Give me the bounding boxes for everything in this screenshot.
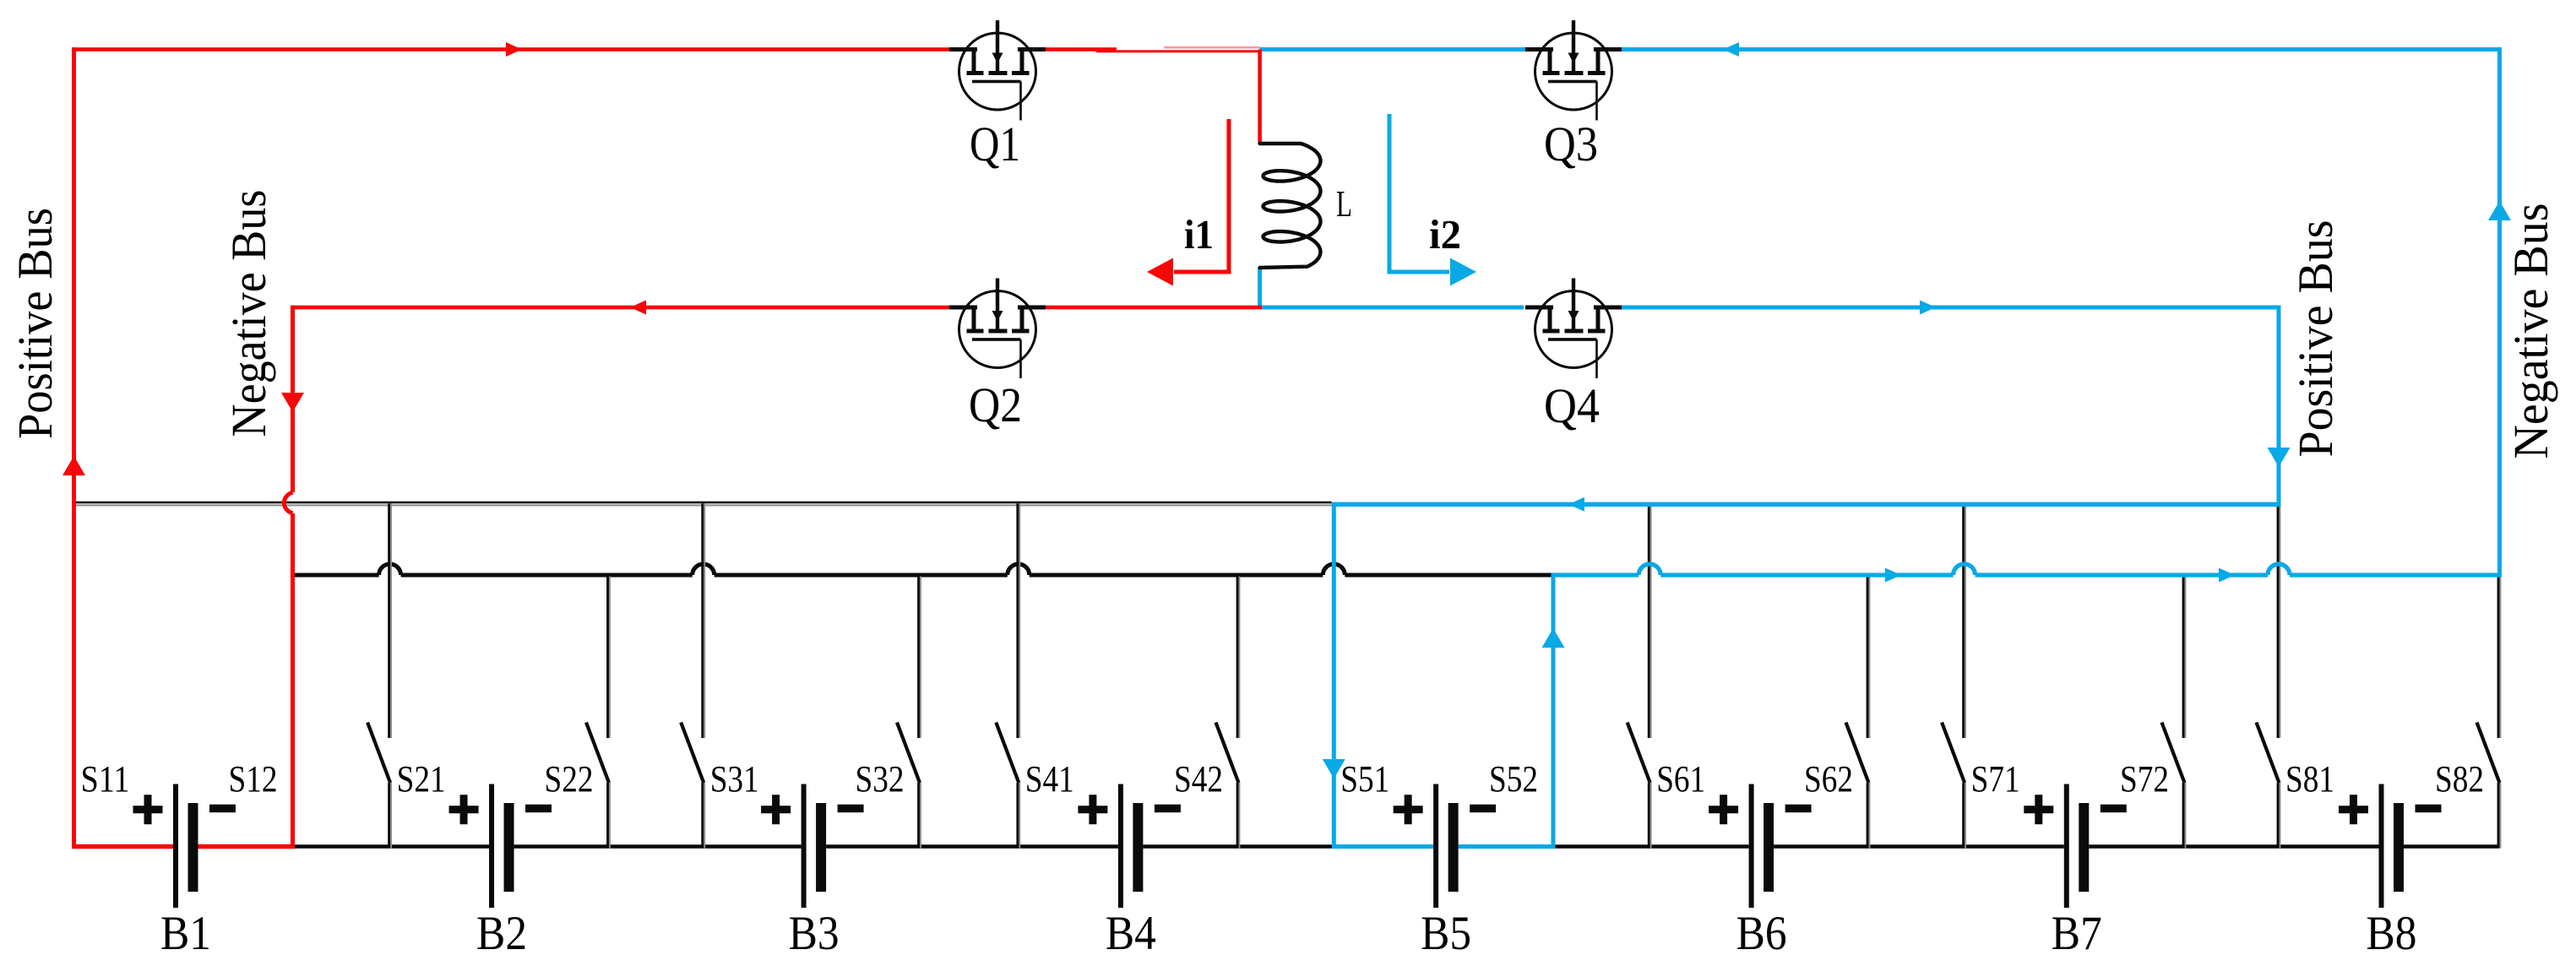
wire: right Negative Bus vertical (blue)	[2497, 47, 2502, 575]
switch S32 (open)	[897, 577, 921, 849]
svg-text:S82: S82	[2435, 758, 2484, 800]
label B7	[2052, 907, 2102, 960]
label S31	[710, 758, 759, 800]
battery B6	[1709, 784, 1812, 909]
arrow: down arrow on right Positive Bus vertical	[2268, 448, 2291, 467]
svg-text:Negative Bus: Negative Bus	[2503, 204, 2558, 459]
svg-text:S22: S22	[545, 758, 594, 800]
svg-text:B5: B5	[1421, 907, 1471, 960]
svg-text:S21: S21	[397, 758, 446, 800]
label B1	[160, 907, 211, 960]
wire: right Positive Bus vertical (blue)	[2277, 306, 2281, 505]
svg-text:Q2: Q2	[969, 377, 1022, 432]
transistor Q1 (MOSFET)	[949, 20, 1046, 121]
svg-text:B6: B6	[1736, 907, 1787, 960]
battery B8	[2339, 784, 2442, 909]
label S12	[229, 758, 278, 800]
label Negative Bus (left)	[221, 190, 276, 437]
svg-text:S62: S62	[1804, 758, 1853, 800]
battery B3	[761, 784, 864, 909]
label B2	[476, 907, 527, 960]
arrow: left arrow on top blue wire	[1723, 42, 1739, 57]
svg-text:B3: B3	[789, 907, 840, 960]
current annotation i1 (red elbow arrow)	[1147, 119, 1231, 286]
arrow: up arrow on S52 column	[1542, 628, 1565, 648]
wire: blue overlay on bus1 (current from Q4 into B5 plus)	[1332, 502, 2281, 507]
label Q2	[969, 377, 1022, 432]
wire: red overlay on bottom wire at B1	[72, 844, 295, 849]
wire: middle red wire from left Negative Bus corner through Q2 to inductor node	[291, 306, 1262, 310]
svg-text:S31: S31	[710, 758, 759, 800]
svg-text:i1: i1	[1184, 211, 1214, 258]
label B3	[789, 907, 840, 960]
label S41	[1025, 758, 1074, 800]
label Positive Bus (right)	[2288, 220, 2343, 458]
wire: S52 closed-switch column (blue, B5 minus to bus2)	[1552, 573, 1556, 846]
svg-text:Q4: Q4	[1544, 378, 1600, 433]
wire: Positive Bus rail (bus1, thin black horizontal)	[74, 502, 1332, 507]
svg-text:B8: B8	[2367, 907, 2417, 960]
switch S72 (open)	[2162, 577, 2187, 849]
transistor Q4 (MOSFET)	[1525, 279, 1622, 379]
svg-text:S42: S42	[1174, 758, 1223, 800]
label Q3	[1544, 117, 1598, 171]
svg-text:Positive Bus: Positive Bus	[8, 208, 62, 439]
label S61	[1656, 758, 1705, 800]
label L (inductor value)	[1336, 183, 1352, 225]
switch S62 (open)	[1846, 577, 1871, 849]
battery B4	[1078, 784, 1181, 909]
battery B2	[449, 784, 552, 909]
wire: blue overlay on bus2 (current from B5 minus to right Negative Bus)	[1553, 564, 2502, 578]
transistor Q2 (MOSFET)	[949, 279, 1046, 379]
svg-text:B1: B1	[160, 907, 211, 960]
svg-text:B2: B2	[476, 907, 527, 960]
switch S61 (open)	[1628, 504, 1652, 849]
svg-text:S71: S71	[1971, 758, 2020, 800]
transistor Q3 (MOSFET)	[1525, 20, 1622, 121]
svg-text:S11: S11	[81, 758, 130, 800]
svg-text:B7: B7	[2052, 907, 2102, 960]
svg-text:S51: S51	[1340, 758, 1389, 800]
arrow: top red current arrow	[506, 42, 522, 57]
label B8	[2367, 907, 2417, 960]
switch S21 (open)	[367, 504, 392, 849]
wire: bottom battery-string wire (black segments)	[293, 844, 2500, 849]
label Q1	[970, 117, 1020, 171]
svg-text:L: L	[1336, 183, 1352, 225]
svg-text:S41: S41	[1025, 758, 1074, 800]
label S32	[856, 758, 905, 800]
svg-text:S61: S61	[1656, 758, 1705, 800]
switch S22 (open)	[586, 577, 611, 849]
arrow: right arrow on blue bus2 overlay (second)	[2219, 568, 2235, 583]
label S42	[1174, 758, 1223, 800]
label S62	[1804, 758, 1853, 800]
svg-text:Positive Bus: Positive Bus	[2288, 220, 2343, 458]
arrow: up arrow on left Positive Bus	[62, 456, 85, 475]
switch S31 (open)	[681, 504, 705, 849]
wire: Negative Bus rail (bus2, black horizontal with crossover hops)	[291, 564, 1552, 578]
label S72	[2120, 758, 2169, 800]
wire: top red wire from left Positive Bus through Q1 to inductor node	[72, 46, 1262, 52]
label B5	[1421, 907, 1471, 960]
label S51	[1340, 758, 1389, 800]
wire: inductor top lead (red drop from top wire)	[1258, 50, 1262, 144]
arrow: left arrow on blue bus1 overlay	[1568, 497, 1584, 512]
svg-text:S81: S81	[2285, 758, 2334, 800]
svg-text:B4: B4	[1106, 907, 1156, 960]
current annotation i2 (blue elbow arrow)	[1388, 114, 1477, 286]
label Negative Bus (right)	[2503, 204, 2558, 459]
label S81	[2285, 758, 2334, 800]
label S22	[545, 758, 594, 800]
arrow: down arrow on left Negative Bus vertical	[281, 393, 304, 412]
wire: S51 closed-switch column (blue, B5 plus to bus1)	[1332, 502, 1336, 847]
label B4	[1106, 907, 1156, 960]
wire: inductor bottom lead (blue drop to middle wire)	[1258, 268, 1262, 307]
svg-text:Negative Bus: Negative Bus	[221, 190, 276, 437]
inductor L (coil)	[1260, 144, 1321, 268]
wire: left Negative Bus vertical (red, S12 column) with hop over bus1	[284, 306, 295, 849]
svg-text:S72: S72	[2120, 758, 2169, 800]
svg-text:i2: i2	[1429, 211, 1461, 258]
label B6	[1736, 907, 1787, 960]
arrow: up arrow on right Negative Bus vertical	[2488, 201, 2511, 220]
arrow: right arrow on blue bus2 overlay (first)	[1885, 568, 1901, 583]
wire: top blue wire from inductor node through Q3 to right Negative Bus	[1260, 47, 2502, 52]
switch S41 (open)	[996, 504, 1020, 849]
battery B5	[1394, 784, 1497, 909]
label S21	[397, 758, 446, 800]
wire: left Positive Bus vertical (red, includes closed switch S11)	[72, 47, 76, 849]
switch S81 (open)	[2257, 504, 2281, 849]
label S11	[81, 758, 130, 800]
battery B1	[133, 784, 236, 909]
arrow: left arrow on middle red wire	[630, 301, 646, 315]
label S52	[1489, 758, 1538, 800]
svg-text:S32: S32	[856, 758, 905, 800]
svg-text:S12: S12	[229, 758, 278, 800]
switch S71 (open)	[1942, 504, 1966, 849]
label i2	[1429, 211, 1461, 258]
svg-text:S52: S52	[1489, 758, 1538, 800]
label S71	[1971, 758, 2020, 800]
arrow: right arrow on middle blue wire	[1920, 301, 1936, 315]
battery B7	[2024, 784, 2127, 909]
label Positive Bus (left)	[8, 208, 62, 439]
switch S42 (open)	[1216, 577, 1241, 849]
label S82	[2435, 758, 2484, 800]
arrow: down arrow on S51 column	[1323, 759, 1345, 779]
label i1	[1184, 211, 1214, 258]
switch S82 (open)	[2477, 577, 2502, 849]
wire: blue overlay on bottom wire at B5	[1332, 844, 1556, 849]
svg-text:Q1: Q1	[970, 117, 1020, 171]
wire: middle blue wire from inductor node through Q4 to right Positive Bus corner	[1260, 306, 2281, 310]
label Q4	[1544, 378, 1600, 433]
svg-text:Q3: Q3	[1544, 117, 1598, 171]
